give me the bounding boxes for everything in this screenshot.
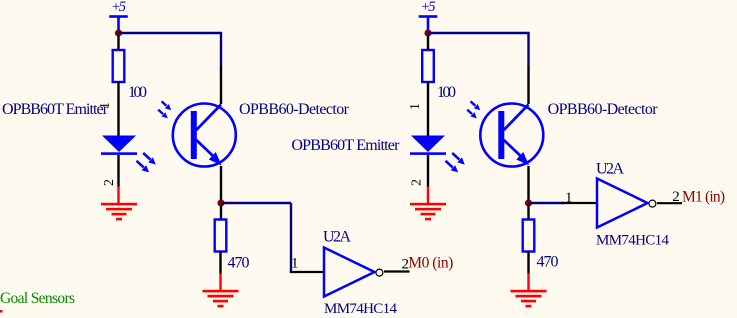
svg-text:100: 100: [128, 84, 147, 101]
svg-text:U2A: U2A: [596, 161, 624, 178]
svg-text:1: 1: [408, 103, 423, 110]
svg-text:OPBB60T Emitter: OPBB60T Emitter: [2, 101, 109, 118]
svg-text:MM74HC14: MM74HC14: [596, 233, 670, 249]
svg-text:Goal Sensors: Goal Sensors: [0, 290, 75, 307]
svg-text:100: 100: [437, 84, 456, 101]
svg-text:2: 2: [102, 179, 117, 186]
svg-text:2: 2: [410, 179, 425, 186]
svg-text:MM74HC14: MM74HC14: [324, 301, 398, 317]
svg-text:M0 (in): M0 (in): [408, 255, 453, 272]
svg-text:2: 2: [672, 189, 680, 205]
svg-text:OPBB60-Detector: OPBB60-Detector: [239, 101, 350, 118]
svg-text:M1 (in): M1 (in): [682, 189, 725, 206]
svg-text:OPBB60T Emitter: OPBB60T Emitter: [291, 137, 400, 154]
svg-text:U2A: U2A: [323, 228, 351, 245]
svg-text:470: 470: [537, 254, 559, 271]
svg-text:OPBB60-Detector: OPBB60-Detector: [548, 101, 659, 118]
svg-text:1: 1: [291, 256, 299, 272]
svg-text:470: 470: [228, 255, 250, 272]
svg-text:1: 1: [565, 190, 573, 206]
